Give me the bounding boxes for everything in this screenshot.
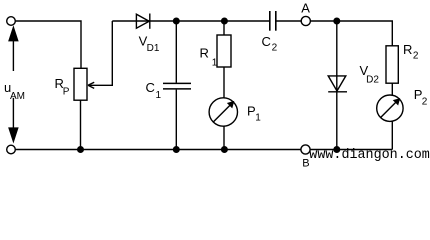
arrow uAM up	[9, 28, 18, 72]
junction R1 top	[221, 18, 228, 25]
wire top rail VD1 to C2	[150, 20, 269, 22]
label uAM	[4, 80, 25, 102]
resistor R1	[217, 35, 231, 67]
svg-text:1: 1	[212, 57, 218, 68]
wire RP bottom lead	[80, 100, 82, 149]
terminal input top	[7, 17, 16, 26]
label C1	[146, 80, 162, 101]
label P1	[247, 104, 261, 124]
meter P2	[377, 95, 403, 121]
wire top rail left segment	[112, 20, 150, 22]
label P2	[414, 87, 428, 107]
wire C1 upper lead	[175, 21, 177, 83]
label C2	[262, 34, 278, 53]
wire P1 lower lead	[223, 126, 225, 149]
diode VD1	[136, 14, 149, 29]
svg-text:P: P	[63, 87, 70, 98]
wire bottom rail right	[310, 149, 392, 151]
wiper arrow of RP	[88, 21, 112, 88]
diode VD2	[328, 76, 347, 92]
svg-text:2: 2	[413, 51, 419, 62]
potentiometer RP	[74, 68, 87, 100]
svg-text:www.diangon.com: www.diangon.com	[309, 148, 430, 163]
junction P1 bottom	[221, 146, 228, 153]
svg-text:D1: D1	[147, 43, 160, 54]
label B	[302, 158, 309, 170]
svg-text:2: 2	[272, 42, 278, 53]
svg-text:D2: D2	[366, 74, 379, 85]
junction C1 top	[173, 18, 180, 25]
junction VD2 bottom	[333, 146, 340, 153]
label VD2	[360, 63, 380, 85]
wire C1 lower lead	[175, 90, 177, 150]
junction C1 bottom	[173, 146, 180, 153]
svg-text:AM: AM	[10, 91, 25, 102]
wire top input to RP	[16, 21, 81, 68]
wire R1 to P1	[223, 67, 225, 98]
wire R2 to P2	[391, 83, 393, 95]
arrow uAM down	[9, 98, 18, 141]
junction RP bottom	[77, 146, 84, 153]
svg-text:A: A	[301, 1, 310, 16]
wire C2 to node A	[277, 20, 302, 22]
svg-text:1: 1	[255, 113, 261, 124]
watermark www.diangon.com	[309, 148, 430, 163]
label R2	[403, 42, 419, 62]
wire node A to corner	[310, 21, 392, 46]
wire VD2 lower lead	[336, 92, 338, 150]
wire P2 lower lead	[391, 121, 393, 149]
wire VD2 upper lead	[336, 21, 338, 92]
junction VD2 top	[333, 18, 340, 25]
resistor R2	[386, 46, 398, 83]
svg-text:R: R	[403, 42, 412, 57]
wire R1 upper lead	[223, 21, 225, 35]
svg-text:C: C	[262, 34, 271, 49]
capacitor C2	[270, 11, 276, 31]
meter P1	[209, 98, 237, 126]
svg-text:C: C	[146, 80, 155, 95]
label R1	[200, 45, 218, 68]
label A	[301, 1, 310, 16]
label VD1	[139, 34, 160, 54]
node B	[301, 145, 310, 154]
label RP	[55, 76, 70, 98]
svg-text:2: 2	[422, 96, 428, 107]
terminal input bottom	[7, 145, 16, 154]
node A	[301, 16, 310, 25]
capacitor C1	[163, 83, 191, 89]
wire bottom rail left	[16, 149, 301, 151]
svg-text:1: 1	[156, 90, 162, 101]
svg-text:R: R	[200, 45, 209, 60]
